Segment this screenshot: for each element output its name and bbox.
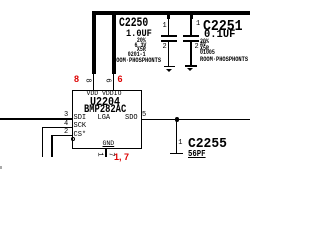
wire CS* vertical drop [51,135,53,157]
C2251 spec X5R [200,46,209,52]
LGA package label [98,115,111,122]
C2250 spec 0201-1 [128,52,146,58]
C2251 note ROHS phosphorus [200,57,248,63]
capacitor C2251 top stub (thick) [190,15,193,20]
thick wire down to VDD pin 8 [92,11,96,74]
pin 6 stub [113,73,114,90]
C2255 refdes [188,138,227,152]
capacitor C2251 bottom wire [190,42,191,66]
C2250 note ROHS phosphorus [113,58,161,64]
IC U2204 body box [72,90,142,149]
pin number 7 (rotated) [106,152,113,156]
thick wire down to VDDIO pin 6 [112,11,116,74]
ground bar under C2251 [185,65,197,66]
capacitor C2255 wire from junction [176,119,177,153]
pin number 3 [64,112,68,119]
ground triangle under C2250 [166,69,172,72]
C2251 spec 01005 [200,50,215,56]
C2250 refdes [119,17,148,30]
pin number 5 [142,112,146,119]
pin name SCK [74,123,87,130]
GND pin stub below U2204 [105,149,106,158]
wire pin 5 SDO to right edge [141,119,251,121]
pin name SDO [125,115,138,122]
wire pin 3 SDI to left edge [0,118,72,119]
capacitor C2250 bottom plate [161,40,177,42]
pin name SDI [74,115,87,122]
C2251 spec 4V [200,42,206,48]
wire pin 4 SCK horizontal [42,127,72,128]
C2255 value 56PF (underlined) [188,149,206,159]
pin number 2 [64,129,68,136]
capacitor C2255 top plate [170,153,183,155]
C2251 pin 2 label [195,44,199,51]
BMP282AC part name [84,105,126,116]
inversion bubble on CS* pin [71,137,75,141]
red annotation 6 [118,75,123,84]
C2250 value 1.0UF [126,29,152,40]
pin name VDD [87,91,99,98]
C2250 spec 20% [137,38,146,44]
C2251 spec 20% [200,39,209,45]
C2251 value 0.1UF [204,30,235,41]
U2204 refdes [90,97,120,109]
capacitor C2250 bottom wire [168,42,169,66]
pin number 1 (rotated) [95,152,102,156]
capacitor C2251 top wire [190,15,191,35]
capacitor C2250 top wire [168,15,169,35]
ground bar under C2250 [164,66,176,67]
ground triangle under C2251 [187,68,193,71]
C2250 spec X5R [137,47,146,53]
junction node dot [175,117,180,122]
pin name VDDIO [102,91,122,98]
stray faint mark bottom-left [0,166,2,168]
capacitor C2250 top stub (thick) [167,15,170,20]
C2251 pin 1 label [196,21,200,28]
red annotation 8 [74,75,79,84]
capacitor C2250 top plate [161,35,177,37]
capacitor C2251 bottom plate [183,40,199,42]
C2255 pin 1 label [178,140,182,147]
C2250 spec 6.3V [134,43,146,49]
pin number 4 [64,121,68,128]
C2251 refdes [203,19,243,34]
red annotation 1, 7 [114,153,129,162]
pin 8 stub [93,73,94,90]
power bus rail (thick horizontal) [92,11,250,15]
pin number 8 (rotated) [83,78,90,82]
wire pin 2 CS* horizontal [52,135,72,136]
wire SCK vertical drop [42,127,43,157]
C2250 pin 2 label [163,44,167,51]
C2250 pin 1 label [163,23,167,30]
pin name GND (underlined) [103,141,115,148]
capacitor C2251 top plate [183,35,199,37]
pin name CS* [74,132,87,139]
pin number 6 (rotated) [103,78,110,82]
